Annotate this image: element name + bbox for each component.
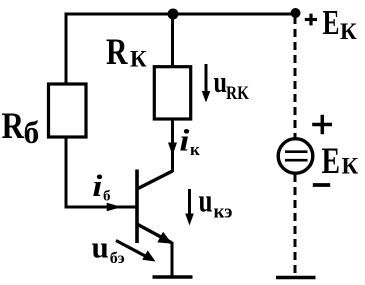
svg-text:RK: RK xyxy=(226,84,250,104)
wire base horizontal xyxy=(65,206,138,209)
resistor R_b box xyxy=(49,84,87,137)
wire top rail xyxy=(65,13,297,16)
svg-text:б: б xyxy=(103,189,111,205)
svg-text:u: u xyxy=(199,184,213,220)
wire collector vertical lower xyxy=(171,119,174,172)
label minus of source xyxy=(313,183,330,187)
svg-text:u: u xyxy=(214,64,228,99)
resistor R_k box xyxy=(154,67,190,119)
dashed wire upper right xyxy=(294,16,297,139)
voltage source E_k circle xyxy=(278,139,313,174)
svg-text:R: R xyxy=(106,32,129,73)
junction dot left xyxy=(168,9,179,20)
arrow u_be diagonal xyxy=(116,241,148,258)
svg-text:u: u xyxy=(92,230,109,265)
arrowhead i_k xyxy=(168,143,177,156)
svg-text:бэ: бэ xyxy=(110,250,125,267)
ground bar right xyxy=(276,276,316,279)
svg-text:б: б xyxy=(24,115,40,150)
transistor Q1 collector lead diagonal xyxy=(136,171,173,190)
transistor Q1 base bar xyxy=(135,170,139,244)
svg-text:R: R xyxy=(2,106,26,147)
svg-text:E: E xyxy=(323,3,340,42)
voltage source inner lines xyxy=(285,150,308,153)
svg-text:К: К xyxy=(130,46,147,71)
svg-text:к: к xyxy=(190,140,200,159)
svg-text:К: К xyxy=(342,154,359,179)
transistor Q1 emitter arrowhead xyxy=(157,232,172,244)
wire left vertical upper xyxy=(65,13,68,86)
svg-text:К: К xyxy=(340,19,357,44)
junction dot right xyxy=(291,8,301,18)
arrow u_ke xyxy=(188,189,191,216)
dashed wire lower right xyxy=(294,174,297,277)
transistor Q1 emitter lead diagonal xyxy=(136,224,172,244)
svg-text:E: E xyxy=(322,141,341,182)
wire collector vertical upper xyxy=(171,14,174,68)
arrowhead i_b xyxy=(107,203,122,211)
svg-text:i: i xyxy=(179,122,189,157)
wire left vertical lower xyxy=(65,136,68,209)
label + E_k top xyxy=(305,18,317,21)
svg-text:кэ: кэ xyxy=(214,202,233,223)
ground bar emitter xyxy=(153,275,193,278)
label + of source xyxy=(312,123,332,127)
arrow u_RK xyxy=(205,64,208,93)
svg-text:i: i xyxy=(92,168,102,203)
wire emitter vertical xyxy=(171,242,174,278)
